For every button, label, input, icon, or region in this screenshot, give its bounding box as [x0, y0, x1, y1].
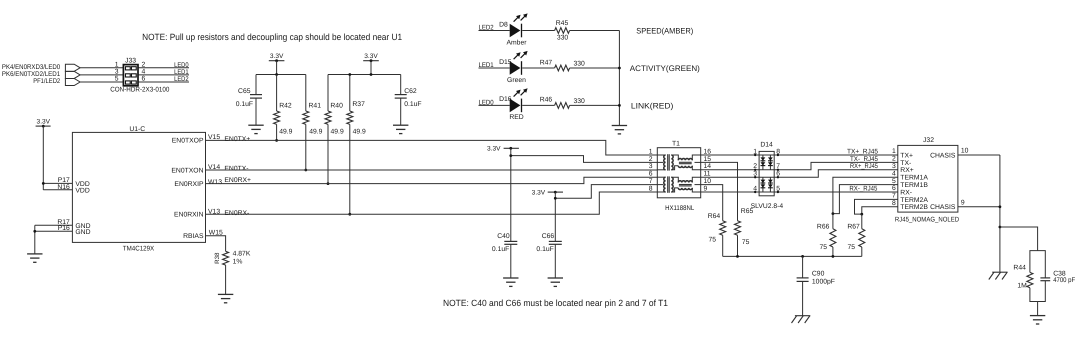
junction rail1 3.3V	[275, 73, 278, 76]
transformer T1 HX1188NL	[657, 148, 700, 198]
svg-text:1000pF: 1000pF	[812, 278, 835, 285]
wire J32 pin4 TERM1A to R66	[833, 177, 898, 213]
wire LED2 to LED	[479, 30, 510, 32]
svg-text:5: 5	[892, 178, 896, 185]
resistor R67 75	[861, 214, 863, 229]
ground C40	[503, 277, 518, 279]
svg-text:7: 7	[892, 193, 896, 200]
wire 3.3V to VDD pins	[42, 126, 44, 190]
svg-text:D15: D15	[499, 59, 512, 66]
junction chassis branch	[999, 226, 1002, 229]
svg-text:5: 5	[776, 185, 780, 192]
svg-text:R44: R44	[1013, 265, 1026, 272]
D14 diodes lower pair	[762, 177, 764, 192]
svg-text:SLVU2.8-4: SLVU2.8-4	[751, 203, 784, 210]
svg-text:75: 75	[819, 244, 827, 251]
svg-text:LED2: LED2	[174, 76, 189, 83]
wire R46 to bus	[570, 104, 620, 106]
resistor R45 330	[555, 28, 570, 34]
wire TX- T1 pin14 to J32 pin2	[701, 162, 898, 169]
svg-text:7: 7	[649, 178, 653, 185]
wire J33 pin 2 to net LED0	[138, 67, 189, 69]
resistor R42 49.9	[276, 75, 278, 112]
svg-text:TERM1B: TERM1B	[900, 182, 928, 189]
svg-text:CHASIS: CHASIS	[930, 204, 956, 211]
resistor R40 49.9	[327, 75, 329, 112]
T1 winding unit TX (pins 1,2,3 - 16,15,14)	[664, 155, 666, 170]
connector J33 body	[123, 65, 138, 86]
wire RX+ T1 pin11 to J32 pin3	[701, 170, 898, 177]
svg-text:10: 10	[961, 148, 969, 155]
svg-text:5: 5	[115, 76, 119, 83]
svg-text:4: 4	[753, 185, 757, 192]
svg-text:75: 75	[847, 244, 855, 251]
mcu U1-C TM4C129X	[72, 132, 205, 242]
wire PK6/EN0TXD2/LED1 to J33 pin 3	[80, 74, 123, 76]
wire TX+ T1 pin16 to J32 pin1	[701, 154, 898, 156]
svg-text:PF1/LED2: PF1/LED2	[33, 78, 60, 85]
svg-text:TERM1A: TERM1A	[900, 175, 928, 182]
svg-text:16: 16	[704, 148, 712, 155]
svg-text:2: 2	[649, 156, 653, 163]
junction R66 bus	[832, 255, 835, 258]
svg-text:TX-_RJ45: TX-_RJ45	[850, 156, 878, 163]
junction R40 EN0RX+	[327, 182, 330, 185]
power symbol 3.3V rail1	[269, 60, 285, 62]
svg-text:0.1uF: 0.1uF	[492, 246, 509, 253]
wire GND pins to ground	[35, 224, 73, 226]
svg-text:R38: R38	[214, 252, 221, 264]
svg-text:R41: R41	[309, 103, 322, 110]
svg-text:RX+_RJ45: RX+_RJ45	[850, 163, 878, 170]
chassis ground C90	[795, 315, 810, 317]
wire T1 pin15 center tap to R65	[701, 162, 738, 220]
svg-text:6: 6	[649, 171, 653, 178]
power rail 3.3V (right)	[328, 74, 401, 76]
svg-text:3.3V: 3.3V	[532, 189, 546, 196]
svg-text:HX1188NL: HX1188NL	[665, 205, 694, 212]
svg-text:EN0TX+: EN0TX+	[224, 136, 250, 143]
wire J32 chassis pins to ground net	[958, 154, 1000, 156]
svg-text:R45: R45	[556, 20, 569, 27]
svg-text:PK4/EN0RXD3/LED0: PK4/EN0RXD3/LED0	[2, 64, 60, 71]
wire PF1/LED2 to J33 pin 5	[80, 81, 123, 83]
svg-text:ACTIVITY(GREEN): ACTIVITY(GREEN)	[630, 64, 700, 73]
svg-text:9: 9	[961, 199, 965, 206]
svg-text:RX-: RX-	[900, 189, 912, 196]
resistor R65 75	[735, 221, 741, 235]
svg-text:R40: R40	[330, 103, 343, 110]
D14 diodes upper pair	[762, 155, 764, 170]
svg-text:SPEED(AMBER): SPEED(AMBER)	[636, 27, 693, 36]
svg-text:3.3V: 3.3V	[270, 53, 284, 60]
svg-text:4.87K: 4.87K	[233, 250, 251, 257]
junction R41 EN0TX-	[304, 169, 307, 172]
ground C62	[393, 124, 408, 126]
junction TERM1 join	[832, 212, 835, 215]
junction 3.3V tap1	[509, 154, 512, 157]
junction rail2 3.3V	[370, 73, 373, 76]
svg-text:W13: W13	[208, 179, 222, 186]
svg-text:1: 1	[115, 62, 119, 69]
svg-text:1%: 1%	[233, 258, 243, 265]
svg-text:EN0RX+: EN0RX+	[224, 177, 251, 184]
svg-text:1M: 1M	[1017, 282, 1027, 289]
svg-text:VDD: VDD	[75, 187, 89, 194]
svg-text:0.1uF: 0.1uF	[236, 101, 253, 108]
tvs diode array D14 SLVU2.8-4	[759, 151, 774, 195]
off-page flag PK6/EN0TXD2/LED1	[65, 71, 80, 78]
wire J32 pin8 TERM2B to R67	[862, 207, 898, 214]
svg-text:R37: R37	[352, 101, 365, 108]
wire EN0TX+	[206, 140, 658, 155]
wire T1 pin10 center tap to R64	[701, 185, 723, 221]
ground LED bus	[612, 125, 627, 127]
svg-text:NOTE: C40 and C66 must be loc: NOTE: C40 and C66 must be located near p…	[443, 298, 668, 308]
svg-text:1: 1	[753, 148, 757, 155]
svg-text:2: 2	[142, 62, 146, 69]
wire RBIAS to R38	[206, 236, 226, 252]
svg-text:R67: R67	[847, 223, 860, 230]
svg-text:8: 8	[892, 200, 896, 207]
svg-text:EN0TX-: EN0TX-	[224, 165, 248, 172]
svg-text:CHASIS: CHASIS	[930, 152, 956, 159]
T1 winding unit RX (pins 6,7,8 - 11,10,9)	[664, 177, 666, 192]
svg-text:4700 pF: 4700 pF	[1053, 277, 1075, 284]
capacitor C40 0.1uF	[504, 240, 517, 242]
wire RX- T1 pin9 to J32 pin6	[701, 191, 898, 193]
svg-text:GND: GND	[75, 229, 90, 236]
svg-text:C40: C40	[497, 233, 510, 240]
svg-text:EN0TXON: EN0TXON	[171, 167, 203, 174]
wire chassis to R44/C38	[1000, 227, 1038, 251]
D14 pin dots and numbers	[754, 154, 756, 156]
svg-text:C62: C62	[404, 88, 417, 95]
svg-text:75: 75	[709, 236, 717, 243]
LED D16 (RED)	[510, 99, 521, 113]
svg-text:C65: C65	[238, 88, 251, 95]
svg-text:6: 6	[892, 185, 896, 192]
svg-text:R42: R42	[279, 103, 292, 110]
junction R65 bus	[736, 255, 739, 258]
wire EN0RX+	[206, 177, 658, 183]
svg-text:V15: V15	[208, 134, 220, 141]
svg-text:RJ45_NOMAG_NOLED: RJ45_NOMAG_NOLED	[895, 217, 959, 224]
svg-text:EN0RXIP: EN0RXIP	[174, 181, 204, 188]
svg-text:3: 3	[649, 163, 653, 170]
svg-text:14: 14	[704, 163, 712, 170]
svg-text:NOTE: Pull up resistors and de: NOTE: Pull up resistors and decoupling c…	[142, 32, 402, 42]
ground C65	[248, 124, 263, 126]
wire J32 pin5 TERM1B join	[833, 185, 898, 214]
svg-text:0.1uF: 0.1uF	[536, 246, 553, 253]
junction C90 bus	[801, 255, 804, 258]
svg-text:RED: RED	[509, 114, 523, 121]
svg-text:7: 7	[776, 163, 780, 170]
svg-text:9: 9	[704, 185, 708, 192]
svg-text:RX-_RJ45: RX-_RJ45	[849, 185, 877, 192]
ground C66	[548, 277, 563, 279]
capacitor C65 0.1uF	[255, 75, 257, 95]
svg-text:W15: W15	[209, 229, 223, 236]
svg-text:Amber: Amber	[506, 39, 527, 46]
ground R44/C38	[1030, 315, 1045, 317]
svg-text:75: 75	[742, 239, 750, 246]
svg-text:R46: R46	[540, 97, 553, 104]
capacitor C66 0.1uF	[549, 240, 562, 242]
svg-text:CON-HDR-2X3-0100: CON-HDR-2X3-0100	[110, 86, 169, 93]
svg-text:1: 1	[892, 148, 896, 155]
wire LED1 to LED	[479, 67, 510, 69]
wire R44/C38 to ground	[1037, 302, 1039, 316]
svg-text:LED0: LED0	[174, 62, 189, 69]
svg-text:49.9: 49.9	[331, 128, 344, 135]
junction R37 rail2	[348, 73, 351, 76]
svg-text:8: 8	[776, 148, 780, 155]
svg-text:11: 11	[704, 171, 711, 178]
svg-text:TERM2B: TERM2B	[900, 204, 928, 211]
junction GND P16	[33, 230, 36, 233]
svg-text:PK6/EN0TXD2/LED1: PK6/EN0TXD2/LED1	[2, 71, 60, 78]
junction TERM2 join	[860, 213, 863, 216]
junction R37 EN0RX-	[348, 213, 351, 216]
svg-text:TERM2A: TERM2A	[900, 197, 928, 204]
svg-text:C90: C90	[812, 271, 825, 278]
junction chassis pin9	[999, 205, 1002, 208]
svg-text:R65: R65	[741, 208, 754, 215]
svg-text:LED1: LED1	[174, 69, 189, 76]
ground R38	[218, 293, 233, 295]
svg-text:R47: R47	[540, 59, 553, 66]
svg-text:RBIAS: RBIAS	[183, 233, 204, 240]
svg-text:RX+: RX+	[900, 167, 913, 174]
svg-text:15: 15	[704, 156, 712, 163]
svg-text:6: 6	[142, 76, 146, 83]
svg-text:TX-: TX-	[900, 160, 911, 167]
junction LED bus row2	[618, 67, 621, 70]
svg-text:TM4C129X: TM4C129X	[123, 245, 155, 252]
wire LED to R46	[522, 104, 554, 106]
svg-text:3: 3	[753, 171, 757, 178]
svg-text:1: 1	[649, 148, 653, 155]
wire 3.3V to T1 pin2 and C40	[510, 148, 512, 241]
svg-text:3: 3	[892, 163, 896, 170]
wire LED to R47	[522, 67, 554, 69]
junction 3.3V tap2	[554, 197, 557, 200]
svg-text:3.3V: 3.3V	[487, 146, 501, 153]
svg-text:J32: J32	[923, 137, 934, 144]
svg-text:EN0RXIN: EN0RXIN	[174, 212, 204, 219]
off-page flag PF1/LED2	[65, 78, 80, 85]
svg-text:49.9: 49.9	[279, 128, 292, 135]
svg-text:J33: J33	[125, 58, 136, 65]
resistor R66 75	[832, 214, 834, 229]
wire termination bus	[723, 255, 862, 257]
wire R47 to bus	[570, 67, 620, 69]
resistor R44 1M	[1030, 251, 1038, 273]
wire EN0TX-	[206, 169, 658, 171]
chassis ground J32	[992, 271, 1007, 273]
svg-text:TX+_RJ45: TX+_RJ45	[847, 148, 878, 155]
ground U1	[27, 253, 42, 255]
resistor R41 49.9	[305, 75, 307, 112]
LED common bus wire	[618, 31, 620, 126]
svg-text:Green: Green	[507, 77, 526, 84]
capacitor C38 4700 pF	[1038, 251, 1046, 278]
svg-text:2: 2	[753, 163, 757, 170]
svg-text:0.1uF: 0.1uF	[404, 101, 421, 108]
svg-text:6: 6	[776, 171, 780, 178]
power rail 3.3V (left)	[256, 74, 306, 76]
wire EN0RX-	[206, 192, 658, 214]
svg-text:P16: P16	[58, 225, 70, 232]
resistor R64 75	[720, 221, 726, 235]
svg-text:330: 330	[574, 61, 586, 68]
resistor R47 330	[555, 65, 570, 71]
wire 3.3V to T1 pin7 and C66	[554, 192, 556, 241]
wire LED to R45	[522, 30, 554, 32]
svg-text:330: 330	[574, 98, 586, 105]
svg-text:EN0TXOP: EN0TXOP	[172, 138, 204, 145]
wire J33 pin 6 to net LED2	[138, 81, 189, 83]
svg-text:TX+: TX+	[900, 152, 913, 159]
svg-text:D16: D16	[499, 96, 512, 103]
svg-text:EN0RX-: EN0RX-	[224, 210, 249, 217]
svg-text:LINK(RED): LINK(RED)	[631, 102, 674, 111]
junction VDD P17	[42, 182, 45, 185]
svg-text:4: 4	[892, 170, 896, 177]
svg-text:10: 10	[704, 178, 712, 185]
svg-text:49.9: 49.9	[353, 128, 366, 135]
wire R45 to bus	[570, 30, 620, 32]
capacitor C62 0.1uF	[400, 75, 402, 95]
capacitor C90 1000pF	[802, 256, 804, 278]
resistor R38 4.87K 1%	[223, 251, 229, 265]
svg-text:N16: N16	[57, 184, 70, 191]
svg-text:D8: D8	[499, 21, 508, 28]
wire LED0 to LED	[479, 104, 510, 106]
svg-text:D14: D14	[760, 141, 773, 148]
svg-text:3.3V: 3.3V	[364, 53, 378, 60]
power symbol 3.3V rail2	[363, 60, 379, 62]
svg-text:R66: R66	[817, 223, 830, 230]
svg-text:330: 330	[557, 35, 569, 42]
connector J32 RJ45_NOMAG_NOLED	[898, 145, 958, 212]
svg-text:3: 3	[115, 69, 119, 76]
wire J32 pin7 TERM2A join	[855, 199, 898, 214]
LED D8 (Amber)	[510, 24, 521, 38]
svg-text:4: 4	[142, 69, 146, 76]
wire J33 pin 4 to net LED1	[138, 74, 189, 76]
svg-text:R64: R64	[708, 213, 721, 220]
svg-text:3.3V: 3.3V	[37, 119, 51, 126]
wire PK4/EN0RXD3/LED0 to J33 pin 1	[80, 67, 123, 69]
junction R42 EN0TX+	[275, 139, 278, 142]
svg-text:U1-C: U1-C	[129, 126, 145, 133]
resistor R37 49.9	[349, 75, 351, 112]
svg-text:2: 2	[892, 156, 896, 163]
svg-text:49.9: 49.9	[309, 128, 322, 135]
junction LED bus row3	[618, 104, 621, 107]
resistor R46 330	[555, 103, 570, 109]
LED D15 (Green)	[510, 61, 521, 75]
svg-text:8: 8	[649, 185, 653, 192]
svg-text:T1: T1	[672, 140, 680, 147]
off-page flag PK4/EN0RXD3/LED0	[65, 64, 80, 71]
svg-text:C66: C66	[542, 233, 555, 240]
